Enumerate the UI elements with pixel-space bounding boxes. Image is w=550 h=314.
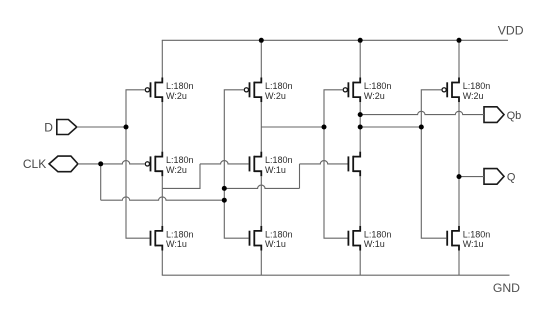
svg-text:D: D bbox=[44, 120, 53, 134]
NMOS transistor M9 (gate X2, column 3 bottom) (L:180n W:1u) bbox=[348, 226, 360, 251]
ground rail GND bbox=[162, 274, 510, 276]
svg-text:W:2u: W:2u bbox=[166, 165, 187, 175]
input port CLK bbox=[23, 156, 78, 172]
net CLK: gate line to M4 and M6 bbox=[224, 90, 248, 238]
svg-text:W:2u: W:2u bbox=[166, 91, 187, 101]
junction VDD / column 4 bbox=[457, 38, 462, 43]
NMOS transistor M3 (gate D, column 1 bottom) (L:180n W:1u) bbox=[151, 226, 163, 251]
wire node X1 to M5 gate (hops over CLK line) bbox=[200, 161, 249, 164]
wire column 2 node between top and middle transistor bbox=[260, 102, 262, 152]
junction VDD / column 2 bbox=[259, 38, 264, 43]
output port Qb bbox=[484, 107, 521, 123]
svg-text:W:2u: W:2u bbox=[265, 91, 286, 101]
wire column 4 output node Q (PMOS source to NMOS drain) bbox=[458, 102, 460, 226]
junction Qb output tap bbox=[358, 112, 363, 117]
svg-text:L:180n: L:180n bbox=[364, 81, 392, 91]
svg-text:Q: Q bbox=[507, 172, 516, 184]
wire CLK to column 3 (hops over column 2) bbox=[224, 185, 299, 188]
PMOS transistor M2 (gate CLK, column 1 middle) (L:180n W:2u) bbox=[145, 152, 162, 177]
svg-text:L:180n: L:180n bbox=[166, 155, 194, 165]
wire column 3 node between top and middle transistor bbox=[359, 102, 361, 152]
junction D at gate line bbox=[124, 125, 129, 130]
wire CLK input to M2 gate (hops over D line) bbox=[78, 161, 145, 164]
net D: gate line to M1 and M3 bbox=[126, 90, 150, 238]
svg-text:W:1u: W:1u bbox=[265, 165, 286, 175]
NMOS transistor M8 (gate CLK, column 3 middle) (no label) bbox=[348, 152, 360, 177]
net Y: gate line to M10 and M11 bbox=[421, 90, 446, 238]
wire column 1 source to GND bbox=[161, 251, 163, 276]
svg-text:W:1u: W:1u bbox=[166, 239, 187, 249]
svg-text:L:180n: L:180n bbox=[463, 81, 491, 91]
wire column 3 drain to VDD bbox=[359, 40, 361, 77]
wire column 3 source to GND bbox=[359, 251, 361, 276]
wire CLK riser to M8 gate row bbox=[299, 164, 301, 189]
wire node X2 branch to gate line of M7/M9 bbox=[261, 126, 324, 128]
svg-text:L:180n: L:180n bbox=[364, 229, 392, 239]
wire column 3 node between middle and bottom transistor bbox=[359, 176, 361, 226]
junction VDD / column 3 bbox=[358, 38, 363, 43]
wire column 1 drain to VDD bbox=[161, 40, 163, 77]
wire CLK branch to CLK gate line (hops over D line and column 1) bbox=[101, 197, 225, 200]
PMOS transistor M7 (gate X2, column 3 top) (L:180n W:2u) bbox=[343, 78, 360, 103]
junction Q output tap bbox=[457, 174, 462, 179]
NMOS transistor M6 (gate CLK, column 2 bottom) (L:180n W:1u) bbox=[250, 226, 262, 251]
svg-text:Qb: Qb bbox=[507, 110, 522, 122]
wire node X1 branch up bbox=[162, 164, 200, 189]
NMOS transistor M11 (output inverter NMOS, column 4) (L:180n W:1u) bbox=[447, 226, 459, 251]
wire CLK to M8 gate (hops over X2 gate line) bbox=[300, 161, 348, 164]
svg-text:W:2u: W:2u bbox=[463, 91, 484, 101]
wire column 1 node between middle and bottom transistor bbox=[161, 176, 163, 226]
svg-text:L:180n: L:180n bbox=[265, 81, 293, 91]
svg-text:L:180n: L:180n bbox=[265, 155, 293, 165]
junction CLK line / lower branch bbox=[222, 198, 227, 203]
junction Qb / inverter gate wire bbox=[358, 125, 363, 130]
wire column 2 node between middle and bottom transistor bbox=[260, 176, 262, 226]
PMOS transistor M10 (output inverter PMOS, column 4) (L:180n W:2u) bbox=[442, 78, 459, 103]
wire node Qb to output port (hops over two verticals) bbox=[360, 111, 484, 114]
wire column 4 drain to VDD bbox=[458, 40, 460, 77]
wire column 2 drain to VDD bbox=[260, 40, 262, 77]
NMOS transistor M5 (gate X1, column 2 middle) (L:180n W:1u) bbox=[250, 152, 262, 177]
svg-text:L:180n: L:180n bbox=[166, 81, 194, 91]
svg-text:CLK: CLK bbox=[23, 157, 46, 171]
power rail VDD bbox=[162, 39, 508, 41]
svg-text:L:180n: L:180n bbox=[166, 229, 194, 239]
junction CLK branch bbox=[98, 161, 103, 166]
svg-text:L:180n: L:180n bbox=[265, 229, 293, 239]
junction CLK line / branch to column 3 bbox=[222, 186, 227, 191]
wire D input to gate line bbox=[77, 126, 126, 128]
wire column 4 source to GND bbox=[458, 251, 460, 276]
PMOS transistor M1 (gate D, column 1 top) (L:180n W:2u) bbox=[145, 78, 162, 103]
svg-text:GND: GND bbox=[493, 281, 520, 295]
svg-text:VDD: VDD bbox=[498, 24, 524, 38]
wire column 1 node between top and middle transistor bbox=[161, 102, 163, 152]
junction inverter gate line bbox=[419, 125, 424, 130]
output port Q bbox=[484, 169, 516, 185]
svg-text:L:180n: L:180n bbox=[463, 229, 491, 239]
wire column 2 source to GND bbox=[260, 251, 262, 276]
PMOS transistor M4 (gate CLK, column 2 top) (L:180n W:2u) bbox=[244, 78, 261, 103]
svg-text:W:1u: W:1u bbox=[265, 239, 286, 249]
svg-text:W:1u: W:1u bbox=[364, 239, 385, 249]
input port D bbox=[44, 120, 77, 135]
wire node Q to output port bbox=[459, 176, 484, 178]
junction X2 gate line bbox=[322, 125, 327, 130]
svg-text:W:1u: W:1u bbox=[463, 239, 484, 249]
wire node Qb to inverter gate line bbox=[360, 126, 421, 128]
svg-text:W:2u: W:2u bbox=[364, 91, 385, 101]
net X2: gate line to M7 and M9 bbox=[324, 90, 348, 238]
wire CLK branch down bbox=[100, 164, 102, 200]
